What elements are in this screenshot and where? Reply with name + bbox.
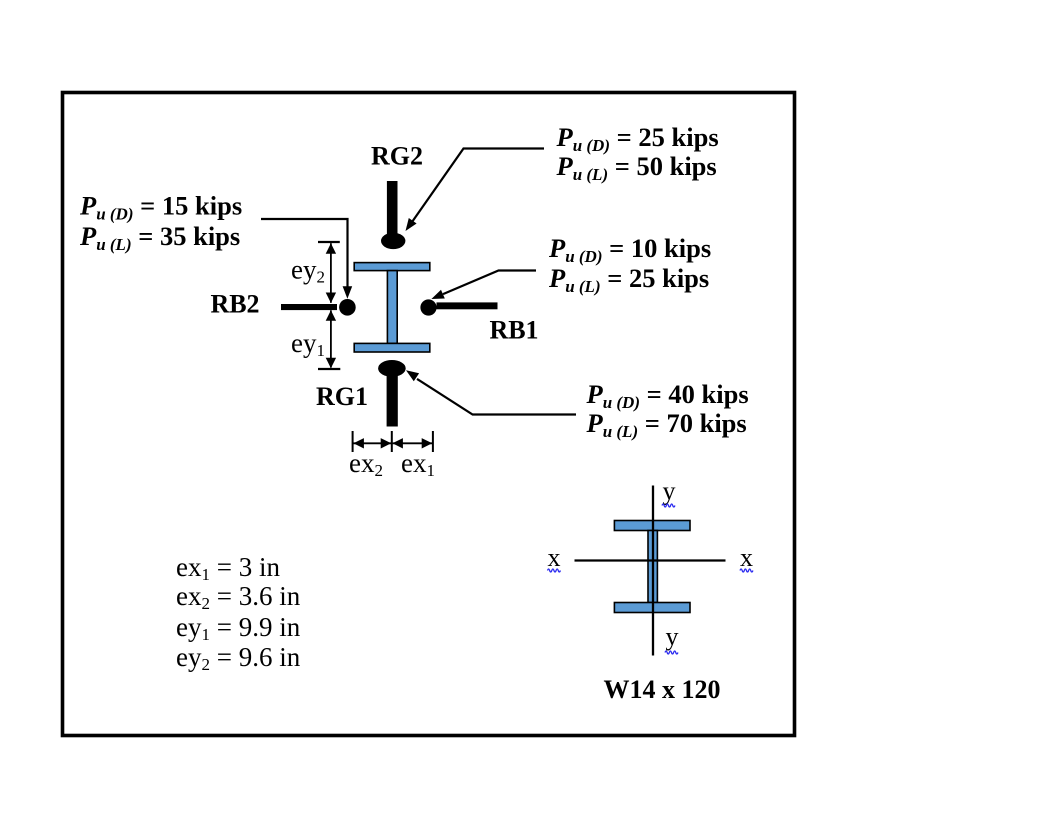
dimension tick bottom (ey1) bbox=[318, 368, 340, 370]
dimension tick top (ey2) bbox=[318, 241, 340, 243]
dimension line ex2 bbox=[353, 442, 391, 444]
svg-text:x: x bbox=[548, 543, 561, 572]
beam RG1 end node bbox=[378, 360, 406, 377]
svg-text:RB2: RB2 bbox=[210, 290, 259, 319]
svg-text:ey1: ey1 bbox=[291, 328, 325, 360]
leader line from RB1 load label to RB1 node bbox=[443, 271, 536, 295]
column section web bbox=[387, 271, 397, 344]
svg-text:y: y bbox=[663, 477, 676, 506]
svg-text:ey2: ey2 bbox=[291, 255, 325, 287]
svg-text:Pu (D) = 25 kips: Pu (D) = 25 kips bbox=[556, 122, 719, 155]
svg-text:Pu (D) = 10 kips: Pu (D) = 10 kips bbox=[548, 233, 711, 266]
leader line from RG1 load label to RG1 node bbox=[417, 379, 576, 415]
dimension line ey2 bbox=[330, 243, 332, 303]
svg-text:RG1: RG1 bbox=[316, 382, 368, 411]
svg-text:y: y bbox=[666, 622, 679, 651]
beam RB1 end node bbox=[420, 299, 436, 315]
dimension tick left (ex2) bbox=[352, 431, 354, 452]
svg-text:ex1: ex1 bbox=[401, 448, 435, 480]
outer border frame bbox=[63, 93, 795, 736]
beam RG2 end node bbox=[381, 233, 405, 249]
dimension tick right (ex1) bbox=[432, 431, 434, 452]
beam RG1 bar bbox=[387, 376, 398, 427]
dimension tick center (ex) bbox=[391, 431, 393, 452]
W-section web bbox=[648, 531, 657, 603]
svg-text:ex2 = 3.6 in: ex2 = 3.6 in bbox=[176, 581, 301, 613]
svg-text:x: x bbox=[740, 543, 753, 572]
column section bottom flange bbox=[354, 343, 430, 352]
svg-text:RG2: RG2 bbox=[371, 142, 423, 171]
dimension line ey1 bbox=[330, 310, 332, 367]
svg-text:RB1: RB1 bbox=[489, 316, 538, 345]
beam RB2 bar bbox=[281, 304, 337, 310]
W-section bottom flange bbox=[614, 603, 690, 613]
svg-text:ex2: ex2 bbox=[349, 448, 383, 480]
svg-text:Pu (L) = 35 kips: Pu (L) = 35 kips bbox=[79, 221, 240, 254]
svg-text:Pu (L) = 70 kips: Pu (L) = 70 kips bbox=[586, 408, 747, 441]
leader line from RG2 load label to RG2 node bbox=[412, 149, 544, 223]
column section top flange bbox=[354, 263, 430, 271]
axis y-y vertical line bbox=[652, 486, 654, 656]
svg-text:Pu (L) = 50 kips: Pu (L) = 50 kips bbox=[556, 151, 717, 184]
svg-text:ex1 = 3 in: ex1 = 3 in bbox=[176, 552, 280, 584]
svg-text:W14 x 120: W14 x 120 bbox=[604, 675, 721, 704]
leader line from RB2 load label to RB2 node bbox=[261, 219, 348, 289]
svg-text:Pu (L) = 25 kips: Pu (L) = 25 kips bbox=[548, 263, 709, 296]
axis x-x horizontal line bbox=[575, 559, 726, 561]
svg-text:ey1 = 9.9 in: ey1 = 9.9 in bbox=[176, 612, 301, 644]
beam RG2 bar bbox=[387, 181, 398, 235]
beam RB2 end node bbox=[339, 299, 356, 316]
beam RB1 bar bbox=[437, 302, 498, 309]
svg-text:Pu (D) = 15 kips: Pu (D) = 15 kips bbox=[79, 191, 242, 224]
W-section top flange bbox=[614, 521, 690, 531]
svg-text:ey2 = 9.6 in: ey2 = 9.6 in bbox=[176, 642, 301, 674]
dimension line ex1 bbox=[393, 442, 433, 444]
